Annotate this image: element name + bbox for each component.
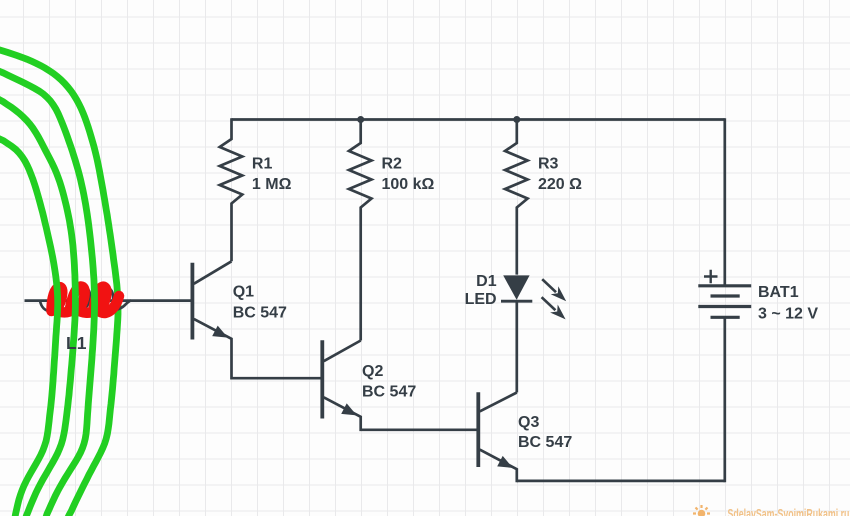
svg-text:1 MΩ: 1 MΩ (252, 176, 292, 193)
watermark sun icon (693, 505, 710, 516)
wire: bottom return rail (517, 480, 725, 483)
transistor Q3 emitter lead with arrow (480, 450, 517, 483)
svg-text:LED: LED (465, 291, 497, 308)
transistor Q2 collector lead (324, 341, 361, 362)
svg-text:BC 547: BC 547 (518, 434, 572, 451)
svg-text:BC 547: BC 547 (233, 304, 287, 321)
inductor L1 winding symbol (dark loops, mostly hidden) (40, 287, 131, 312)
LED light arrow 2 (542, 297, 556, 310)
svg-text:100 kΩ: 100 kΩ (382, 176, 435, 193)
battery BAT1 plate short 2 (711, 316, 740, 319)
search coil winding arc 2 (green) (0, 99, 75, 516)
wire: top supply rail (232, 118, 725, 121)
svg-text:3 ~ 12 V: 3 ~ 12 V (758, 306, 818, 323)
svg-text:R3: R3 (538, 156, 559, 173)
search coil winding arc 3 (green) (0, 70, 95, 516)
resistor R1 with leads (220, 118, 243, 261)
node junction dot at R3/top rail (513, 116, 520, 123)
transistor Q1 collector lead (194, 261, 232, 284)
wire: coil to Q1 base (25, 299, 191, 302)
LED D1 cathode bar (501, 300, 532, 303)
transistor Q2 emitter lead with arrow (324, 397, 477, 430)
svg-text:R2: R2 (382, 156, 403, 173)
transistor Q3 base bar (476, 392, 480, 467)
svg-text:BAT1: BAT1 (758, 284, 799, 301)
svg-text:L1: L1 (66, 333, 87, 353)
transistor Q2 base bar (320, 340, 324, 418)
transistor Q3 collector lead (480, 393, 517, 412)
svg-text:Q1: Q1 (233, 284, 254, 301)
battery BAT1 plate long 2 (698, 305, 751, 308)
search coil winding arc 1 (green, innermost) (0, 138, 58, 516)
red scribble annotation over L1 (52, 286, 120, 312)
wire: LED cathode down to Q3 collector (515, 301, 518, 392)
LED D1 triangle (anode) (503, 275, 529, 299)
battery plus sign (704, 270, 718, 284)
svg-text:D1: D1 (476, 273, 497, 290)
transistor Q1 base bar (190, 263, 194, 340)
wire: battery positive lead (723, 118, 726, 286)
resistor R2 with leads (349, 120, 372, 341)
svg-text:Q3: Q3 (518, 414, 539, 431)
svg-text:R1: R1 (252, 156, 273, 173)
search coil winding arc 4 (green, behind red scribble) (0, 48, 118, 516)
svg-text:SdelaySam-SvoimiRukami.ru: SdelaySam-SvoimiRukami.ru (728, 507, 850, 516)
transistor Q1 emitter lead with arrow (194, 319, 321, 378)
svg-text:BC 547: BC 547 (362, 384, 416, 401)
resistor R3 with leads (505, 120, 528, 275)
battery BAT1 plate long 1 (698, 284, 751, 287)
LED light arrow 1 (542, 279, 556, 292)
svg-text:Q2: Q2 (362, 363, 383, 380)
node junction dot at R2/top rail (357, 116, 364, 123)
battery BAT1 plate short 1 (711, 294, 740, 297)
wire: battery negative lead (723, 317, 726, 482)
svg-text:220 Ω: 220 Ω (538, 176, 582, 193)
